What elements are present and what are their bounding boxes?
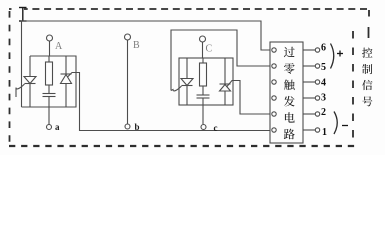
svg-text:C: C bbox=[206, 44, 213, 55]
svg-text:b: b bbox=[135, 122, 140, 132]
svg-text:6: 6 bbox=[321, 43, 326, 54]
svg-text:a: a bbox=[55, 122, 60, 132]
svg-text:4: 4 bbox=[321, 78, 326, 89]
svg-text:B: B bbox=[133, 40, 140, 51]
svg-text:c: c bbox=[214, 123, 218, 133]
svg-text:1: 1 bbox=[322, 127, 327, 138]
svg-text:2: 2 bbox=[321, 107, 326, 118]
svg-text:A: A bbox=[55, 41, 63, 52]
svg-text:5: 5 bbox=[321, 62, 326, 73]
svg-text:3: 3 bbox=[321, 93, 326, 104]
